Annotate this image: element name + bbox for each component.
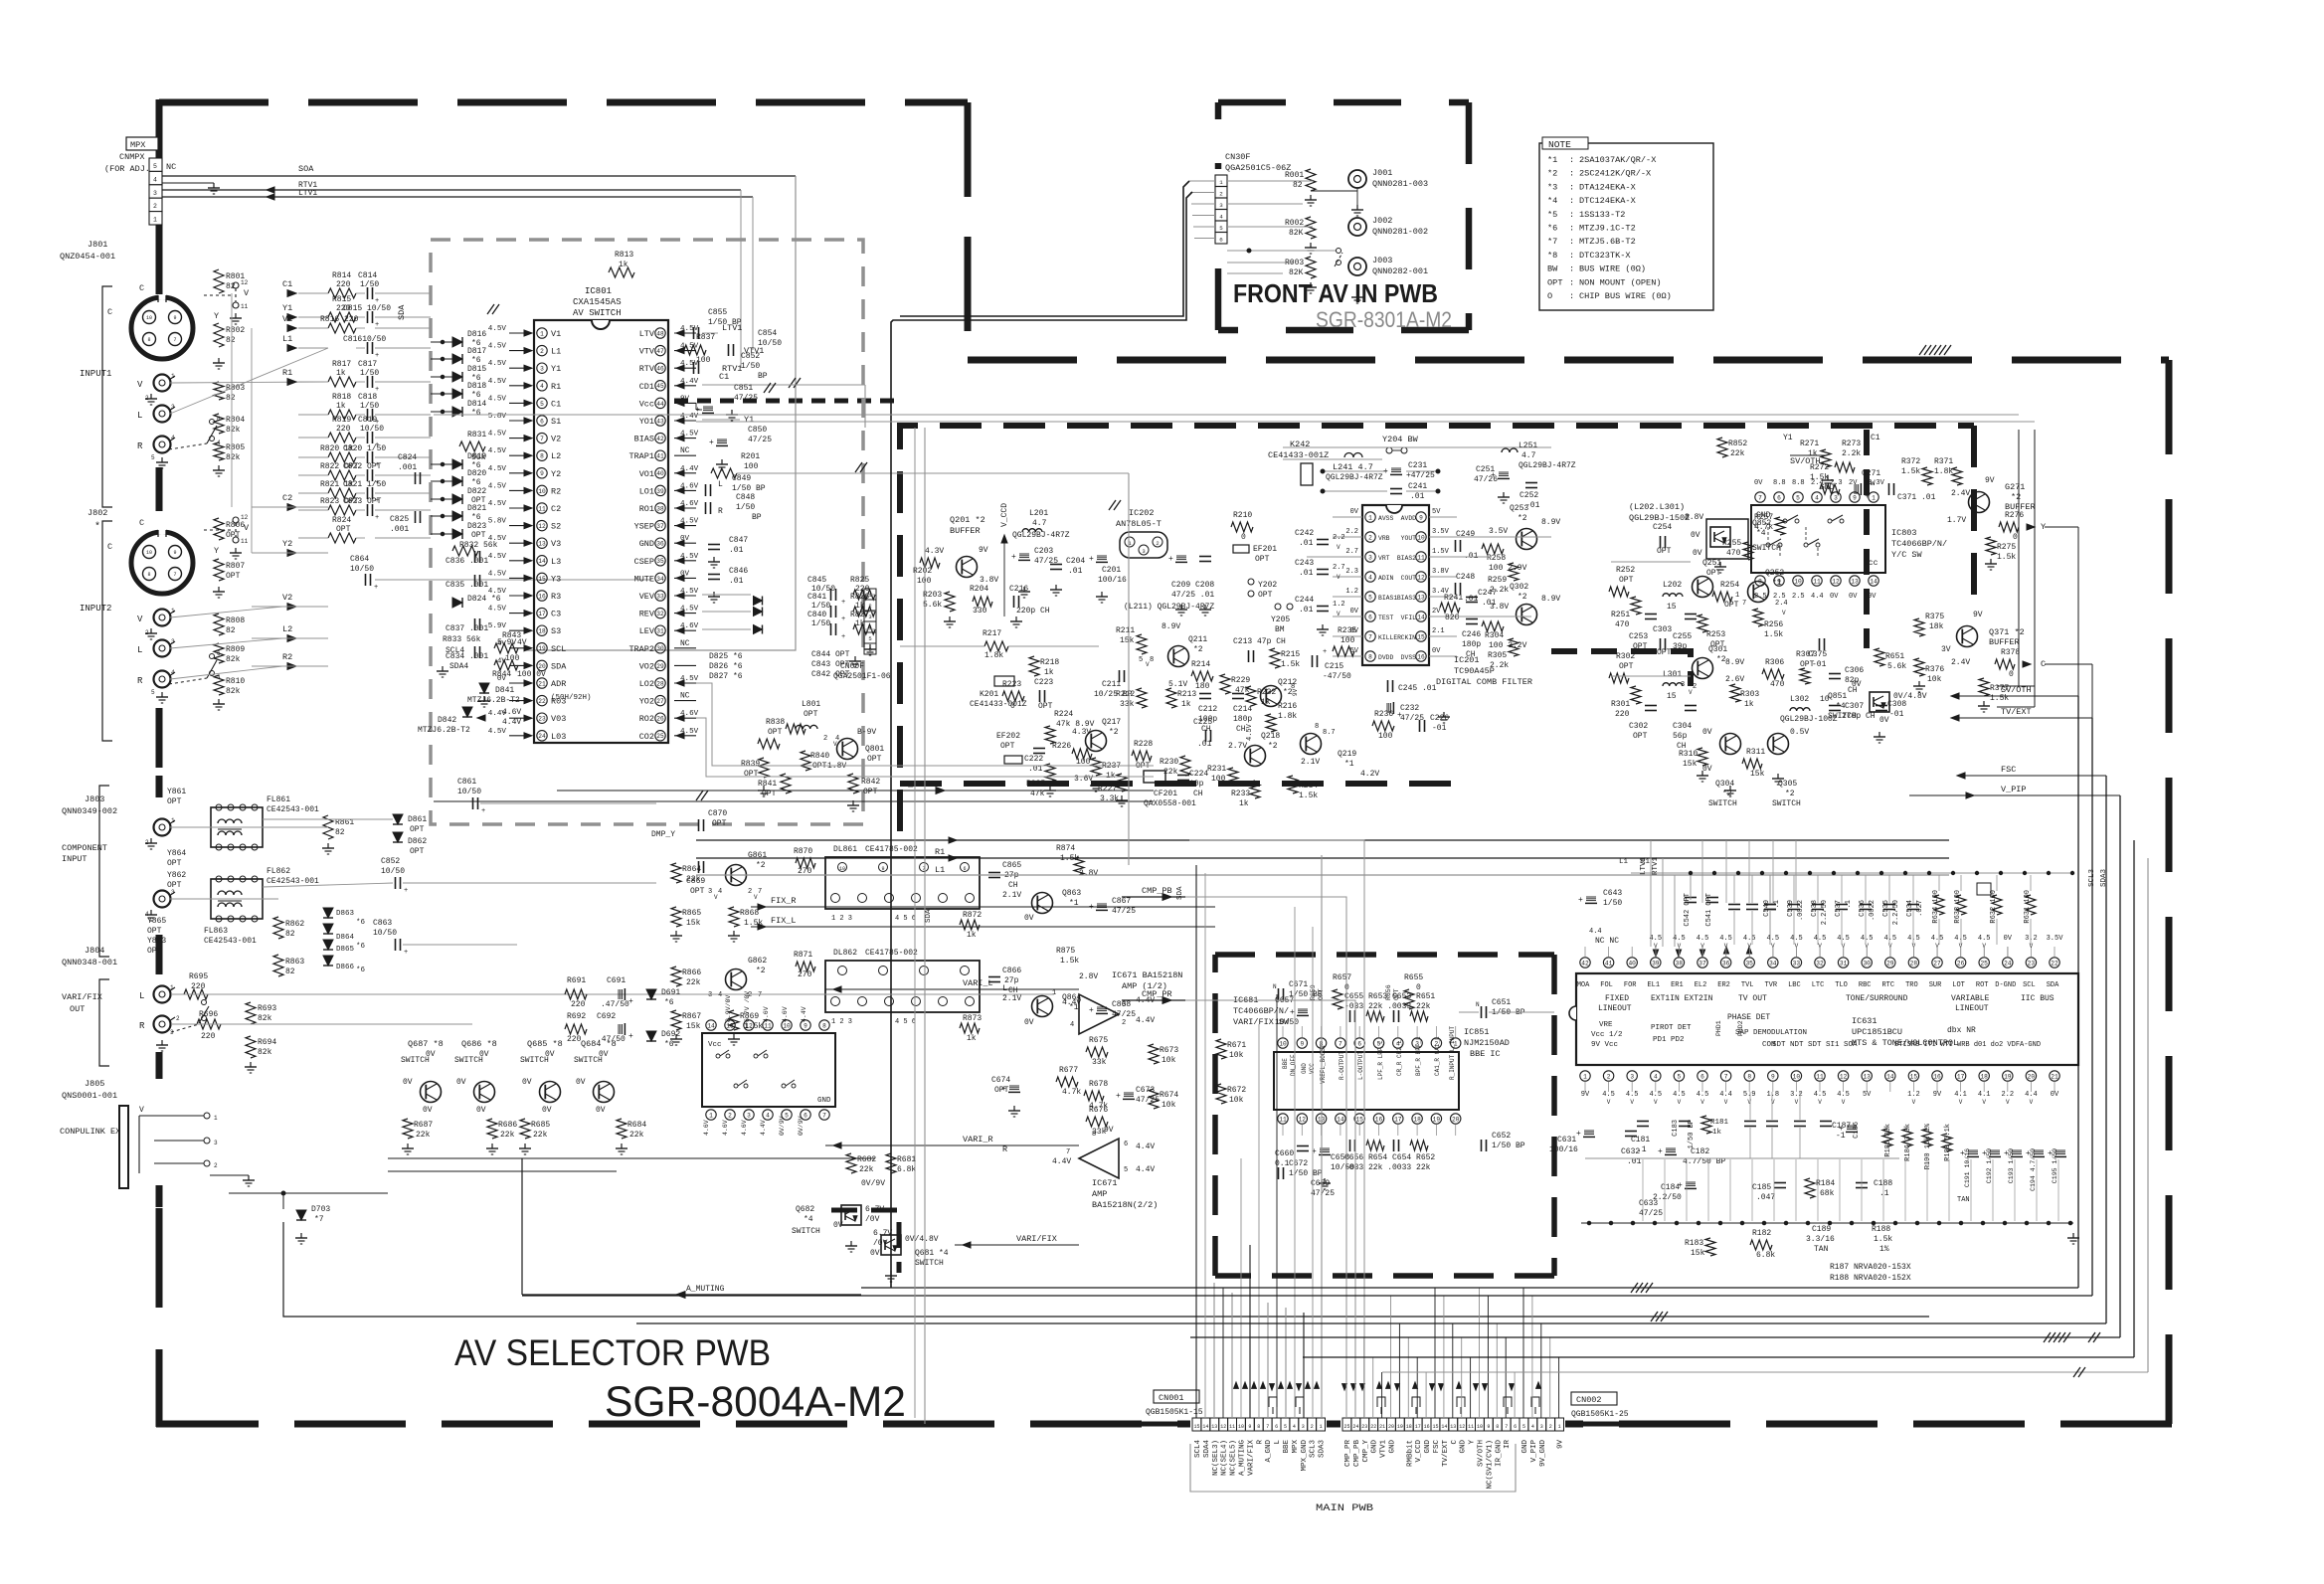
IC851 bottom pin 13 [1316,1114,1326,1124]
resistor R822 [328,470,356,480]
svg-text:4.2V: 4.2V [1360,770,1379,779]
svg-text:15k: 15k [686,919,701,928]
IC681 top pin 14 [706,1020,716,1030]
svg-text:27: 27 [1933,960,1941,967]
svg-text:30: 30 [656,645,664,652]
svg-text:1.5k: 1.5k [1997,553,2016,562]
svg-text:1: 1 [171,373,175,380]
top bus wire IC631 [1631,872,2073,874]
svg-text:Y864: Y864 [167,849,186,858]
svg-text:11: 11 [764,1022,772,1029]
resistor R675 33k [1086,1047,1108,1057]
resistor R223 0 [1002,691,1024,701]
IC631 pin 18 [1979,1071,1989,1081]
svg-text:2.2k: 2.2k [1490,586,1509,595]
svg-text:+: + [709,439,714,447]
V_PIP arrow right side [1966,792,1974,798]
svg-text:9: 9 [1853,494,1857,501]
CN002 pin 6 [1511,1418,1520,1431]
wire LO2 route [696,683,1154,766]
svg-text:O: O [1547,291,1552,301]
svg-text:3: 3 [171,638,175,645]
resistor R805 82k [214,442,224,460]
svg-text:0V: 0V [1691,531,1700,540]
svg-text:R230: R230 [1160,758,1178,767]
svg-text:K201: K201 [980,690,998,699]
svg-text:VREFL_BOOST: VREFL_BOOST [1320,1044,1327,1084]
svg-text:R231: R231 [1207,765,1226,774]
svg-text:VARI/FIX: VARI/FIX [1016,1234,1057,1244]
svg-text:NC(SEL5): NC(SEL5) [1230,1440,1238,1476]
svg-text:CN002: CN002 [1576,1395,1602,1405]
svg-text:C849: C849 [732,474,751,483]
svg-text:4: 4 [171,669,175,676]
cap C302 OPT [1645,705,1657,707]
svg-text:9V: 9V [979,546,988,555]
svg-text:VFIL: VFIL [1401,615,1417,621]
svg-text:1: 1 [214,1115,218,1122]
IC681 bottom pin 5 [782,1110,792,1120]
svg-text:DVDD: DVDD [1378,654,1394,661]
svg-text:Y1: Y1 [744,415,754,425]
cap C371 .01 [1888,483,1890,495]
svg-text:C201: C201 [1102,566,1121,575]
svg-text:4.5V: 4.5V [488,447,507,455]
svg-text:LO1: LO1 [639,486,654,496]
svg-text:0: 0 [2013,533,2018,542]
svg-text:CHIP BUS WIRE (0Ω): CHIP BUS WIRE (0Ω) [1579,291,1672,301]
svg-text:DN_OFF: DN_OFF [1290,1054,1297,1076]
svg-text:1.5k: 1.5k [1874,1235,1892,1244]
svg-text:15: 15 [1417,633,1425,640]
svg-text:10/50: 10/50 [1331,1163,1354,1172]
horizontal bus pair near audio bottom [522,1295,2092,1297]
IC801 pin 13 V3 [537,538,547,548]
svg-text:6.8k: 6.8k [1756,1251,1775,1260]
filter FL861 [211,807,263,847]
IC801 pin 26 RO2 [655,713,665,723]
svg-text:V: V [137,380,143,390]
svg-text:IC803: IC803 [1891,528,1917,538]
svg-text:14: 14 [1870,578,1877,585]
bottom rail wire [1581,1222,2073,1224]
svg-text::: : [1569,182,1574,192]
cap C247 .01 [1466,597,1478,599]
svg-text:4.5: 4.5 [1837,1091,1850,1099]
svg-text:D817: D817 [467,347,486,356]
svg-text:1: 1 [1872,494,1876,501]
svg-text:100/16: 100/16 [1549,1145,1578,1154]
extra bottom caps IC631 [1744,1121,1756,1123]
svg-text:.027: .027 [1916,900,1924,917]
svg-text:4.5V: 4.5V [488,535,507,543]
resistor R633 100 [1956,895,1966,915]
svg-text:PD1 PD2: PD1 PD2 [1653,1036,1685,1044]
outer dashed border bottom edge [156,1421,2172,1428]
svg-text:SAP DEMODULATION: SAP DEMODULATION [1735,1029,1807,1037]
resistor R212 33k [1137,688,1147,708]
CN002 pin 8 [1493,1418,1502,1431]
wire V_PIP [557,790,1154,792]
svg-text:D841: D841 [495,686,514,695]
svg-text:2.5: 2.5 [1754,593,1767,601]
svg-text:L: L [137,411,142,421]
CN002 pin 5 [1520,1418,1528,1431]
svg-text:D819: D819 [467,452,486,461]
svg-text:23: 23 [2028,960,2036,967]
svg-text:Q685 *8: Q685 *8 [527,1039,563,1049]
svg-text:R188 NRVA020-152X: R188 NRVA020-152X [1830,1274,1911,1283]
svg-text:40: 40 [1628,960,1636,967]
svg-text:ROT: ROT [1976,981,1989,989]
svg-text:D818: D818 [467,382,486,391]
svg-text:R188: R188 [1872,1225,1890,1234]
resistor R691 220 [565,989,587,999]
svg-text:R235: R235 [1338,626,1356,635]
cap C375 .01 [1819,638,1821,650]
CN002 pin 12 [1458,1418,1467,1431]
svg-text:-033 22k .0033 22k: -033 22k .0033 22k [1344,1163,1431,1172]
second delay line row Q862 [671,967,681,986]
diodes D861 D862 [393,814,403,824]
resistor R840 OPT [801,751,810,771]
svg-text:LO2: LO2 [639,679,654,689]
svg-text:10k: 10k [1229,1051,1244,1060]
caps C184 C185 C188 [1686,1181,1696,1183]
svg-text:39: 39 [656,488,664,495]
svg-text:7: 7 [540,436,544,442]
svg-text:1k: 1k [855,619,865,628]
IC803 internal switches [1766,543,1770,547]
svg-text:CMP_PB: CMP_PB [1142,886,1172,896]
svg-text:220: 220 [201,1032,216,1041]
wires component rows [170,826,328,828]
svg-text:1: 1 [1052,989,1056,997]
IC801 pin 35 CSEP [655,556,665,566]
svg-text:Q851: Q851 [1828,692,1847,701]
IC801 pin 11 C2 [537,503,547,513]
diode D820 [452,476,462,486]
svg-text:R304: R304 [1485,631,1504,640]
svg-text:TAN: TAN [1814,1245,1829,1254]
svg-text:-47/50: -47/50 [1323,672,1351,681]
cap C201 100/16 [1097,555,1107,557]
svg-text:33: 33 [656,593,664,600]
cap C187 -1 [1820,1121,1832,1123]
svg-text:12: 12 [1417,574,1425,581]
svg-text:Vcc 1/2: Vcc 1/2 [1591,1031,1623,1039]
svg-text:INPUT1: INPUT1 [80,369,111,379]
resistor R303 1k [1730,684,1740,702]
svg-text:C692: C692 [597,1012,616,1021]
svg-text:UPC1851BCU: UPC1851BCU [1852,1027,1902,1037]
svg-text:8: 8 [1092,1131,1096,1139]
svg-text:*2: *2 [1109,728,1119,737]
hatches top [1919,345,1926,355]
svg-text:4.5: 4.5 [1719,935,1732,943]
Y204 BW [1386,447,1392,453]
svg-text:1.5k: 1.5k [1060,957,1079,966]
svg-text:PHASE DET: PHASE DET [1727,1013,1770,1022]
svg-text:OPT: OPT [1000,742,1015,751]
svg-text:1.5k: 1.5k [1764,630,1783,639]
diode D816 [452,337,462,347]
svg-text:1/50: 1/50 [360,402,379,411]
svg-text:10: 10 [538,488,546,495]
svg-text:D864: D864 [336,934,355,942]
transistor Q217 [1086,731,1107,752]
svg-text:2.4: 2.4 [1775,600,1788,608]
svg-text:Y1: Y1 [282,303,292,313]
resistor R210 0 [1231,522,1253,532]
svg-text:V_PIP: V_PIP [1530,1440,1538,1463]
svg-text:2.7: 2.7 [1333,564,1345,572]
svg-text:1k: 1k [855,602,865,611]
svg-text:*4: *4 [804,1215,813,1224]
svg-text:1.7V: 1.7V [1947,516,1966,525]
svg-text:*2: *2 [2011,492,2021,502]
svg-text:1.5k: 1.5k [1810,473,1829,482]
svg-text:DL861: DL861 [833,845,857,854]
svg-text:QGA2501C5-06Z: QGA2501C5-06Z [1225,163,1291,173]
svg-text:R236: R236 [1374,710,1393,719]
svg-text:35: 35 [1745,960,1753,967]
svg-text:QNN0281-003: QNN0281-003 [1372,179,1428,189]
svg-text:0V: 0V [426,1050,436,1059]
svg-text:48: 48 [656,330,664,337]
svg-text:*6: *6 [1547,224,1557,234]
svg-text:R181: R181 [1710,1119,1729,1127]
svg-text:GND: GND [639,539,654,549]
svg-text:R258: R258 [1487,554,1506,563]
cap C652 1/50 BP [1481,1140,1483,1151]
svg-text:(FOR ADJ.): (FOR ADJ.) [104,164,155,174]
svg-text:R003: R003 [1285,259,1304,267]
svg-text:47/25: 47/25 [1112,907,1136,916]
svg-text:C845: C845 [807,576,826,585]
svg-text:R372: R372 [1901,457,1920,466]
svg-text:+: + [1323,648,1327,656]
resistor R802 82 [214,323,224,347]
svg-text:4.5V: 4.5V [488,570,507,578]
IC681 top pin 11 [763,1020,773,1030]
svg-text:5: 5 [1139,656,1143,664]
svg-text:6: 6 [1368,614,1372,620]
svg-text:10k: 10k [1162,1101,1176,1110]
svg-text:1: 1 [1320,1424,1323,1430]
svg-text:+: + [404,949,408,957]
svg-text:18: 18 [1406,1424,1412,1430]
svg-text:SWITCH: SWITCH [1708,799,1737,808]
svg-text:C672: C672 [1289,1159,1308,1168]
svg-text:4.5V: 4.5V [488,360,507,368]
svg-text:13: 13 [1863,1073,1871,1080]
svg-text:3.8V: 3.8V [1432,568,1450,576]
diode D822 [452,494,462,504]
svg-text:7: 7 [1505,1424,1508,1430]
svg-text:L03: L03 [551,732,566,742]
svg-text:9: 9 [881,866,884,872]
J801 switch contacts [233,282,239,288]
svg-text:EF202: EF202 [996,732,1020,741]
IC801 pin 40 VO1 [655,468,665,478]
svg-text:28: 28 [1910,960,1918,967]
svg-text:R633 100: R633 100 [1954,890,1962,924]
svg-text:C192 1/50: C192 1/50 [1986,1148,1993,1183]
cap C643 1/50 [1586,896,1596,898]
svg-text:15: 15 [1667,692,1677,701]
svg-text:SDA3: SDA3 [2100,868,2108,887]
svg-text:C195 1/50: C195 1/50 [2052,1148,2058,1183]
IC851 top pin 6 [1354,1038,1364,1048]
IC631 pin 1 [1580,1071,1590,1081]
svg-text:C308: C308 [1887,700,1906,709]
arrows at IC631 top [1653,950,1658,957]
svg-text::: : [1569,155,1574,165]
svg-text:C851: C851 [734,384,753,393]
svg-text:1.5V: 1.5V [1432,548,1450,556]
resistor R674 10k [1149,1089,1159,1109]
IC851 top pin 5 [1373,1038,1383,1048]
IC801 pin 27 YO2 [655,695,665,705]
svg-text:R-OUTPUT: R-OUTPUT [1339,1051,1345,1080]
svg-text:R655: R655 [1404,973,1423,982]
svg-text:*8: *8 [1547,251,1557,261]
IC801 pin 24 L03 [537,731,547,741]
svg-text:10/50: 10/50 [381,867,405,876]
svg-text:*2: *2 [1547,169,1557,179]
svg-text:10k: 10k [1162,1056,1176,1065]
svg-text:1: 1 [1368,514,1372,521]
svg-text:4.4: 4.4 [1589,928,1602,936]
svg-text:L202: L202 [1663,581,1682,590]
IC201 pin COUT [1416,572,1426,582]
svg-text:VARIABLE: VARIABLE [1951,994,1990,1003]
svg-text:15: 15 [1355,1116,1363,1123]
svg-text:5.9V: 5.9V [488,622,507,630]
svg-text:C541 OPT: C541 OPT [1705,893,1713,927]
IC631 pin 20 [2026,1071,2036,1081]
svg-text:+: + [1089,555,1094,564]
resistor R873 1k [960,1023,980,1033]
transistor Q212 [1261,686,1282,707]
svg-text:4.4V: 4.4V [801,1006,807,1022]
svg-text:+: + [374,584,378,592]
svg-text:V2: V2 [282,593,292,603]
svg-text:D861: D861 [408,815,427,824]
svg-text:TEST: TEST [1378,615,1394,621]
cap C657 10/50 [1298,1008,1308,1010]
svg-text:1/50: 1/50 [811,602,830,611]
resistor R204 330 [973,597,992,607]
transistor Q301 [1693,658,1713,679]
svg-text:LBC: LBC [1788,981,1801,989]
svg-text:4.7k: 4.7k [1062,1088,1081,1097]
svg-text:R215: R215 [1281,650,1300,659]
svg-text:8.9V: 8.9V [1541,595,1560,604]
IC631 pin 25 [1979,958,1989,968]
cap C192 [1990,1149,2000,1151]
transistor Q271 buffer [1969,492,1990,513]
wire CMP_Y to CN002 [1189,840,1364,1418]
resistor R229 47k [1220,674,1230,694]
svg-text:*4: *4 [1547,196,1557,206]
resistor R694 82k [246,1036,256,1058]
svg-text:.01: .01 [1410,492,1425,501]
svg-text:17: 17 [538,611,546,617]
svg-text:OPT: OPT [1657,547,1672,556]
svg-text:R310: R310 [1679,750,1698,759]
svg-text:EF201: EF201 [1253,545,1277,554]
svg-text:19: 19 [1397,1424,1403,1430]
svg-text:+: + [1839,1125,1844,1134]
svg-text:2: 2 [748,888,752,896]
svg-text:.1: .1 [1879,1189,1889,1198]
svg-text:6: 6 [1514,1424,1517,1430]
svg-text:L2: L2 [282,624,292,634]
svg-text:BP: BP [758,372,768,381]
svg-text:220: 220 [336,425,351,434]
svg-text:82k: 82k [226,453,241,462]
svg-text:R678: R678 [1089,1080,1108,1089]
resistor R808 82 [214,614,224,635]
caps row bottom C656 R654 C654 R652 [1349,1140,1351,1151]
svg-text:0V: 0V [479,1050,489,1059]
svg-text:C835 .001: C835 .001 [446,581,488,590]
cap VTV [728,344,730,356]
svg-text:R806: R806 [226,521,245,530]
svg-text:Q217: Q217 [1102,718,1121,727]
svg-text:C243: C243 [1295,559,1314,568]
svg-text:20: 20 [1388,1424,1394,1430]
svg-text:Q302: Q302 [1510,583,1528,592]
IC803 pin 5 [1793,492,1803,502]
svg-text:Y/C SW: Y/C SW [1891,550,1923,560]
RCA jack PB component [154,891,171,908]
svg-text:AVDD: AVDD [1401,515,1417,522]
svg-text:0.5V: 0.5V [1790,728,1809,737]
svg-text:V: V [1795,1099,1799,1106]
IC681 top pin 10 [782,1020,792,1030]
svg-text:15k: 15k [686,1022,701,1031]
svg-text:L: L [137,645,142,655]
svg-text:GND: GND [1371,1440,1379,1454]
cap C836 .001 [474,551,476,563]
svg-text:21: 21 [1379,1424,1385,1430]
svg-text:6: 6 [1275,1424,1278,1430]
resistor R874 1.5k [1074,857,1084,875]
cap C191 10/16 TAN [1968,1149,1978,1151]
svg-text:4.5: 4.5 [1814,935,1827,943]
resistor R817 [328,377,356,387]
svg-text:CE41433-001Z: CE41433-001Z [1268,450,1329,460]
svg-text:R303: R303 [1740,690,1759,699]
resistor R693 82k [246,1002,256,1024]
svg-text:Q863: Q863 [1062,889,1081,898]
svg-text:R817: R817 [332,360,351,369]
svg-text:1/50 BP: 1/50 BP [732,484,766,493]
svg-text:C241: C241 [1408,482,1427,491]
svg-text:1: 1 [1558,1424,1561,1430]
svg-text:BBE IC: BBE IC [1470,1049,1501,1059]
svg-text:C181: C181 [1631,1136,1650,1144]
svg-text:15: 15 [538,576,546,583]
svg-text:C864: C864 [350,555,369,564]
cap C534 .027 [1907,904,1919,906]
resistor R806 OPT [214,518,224,540]
diodes D863-D866 [323,908,333,918]
svg-text:R691: R691 [567,976,586,985]
